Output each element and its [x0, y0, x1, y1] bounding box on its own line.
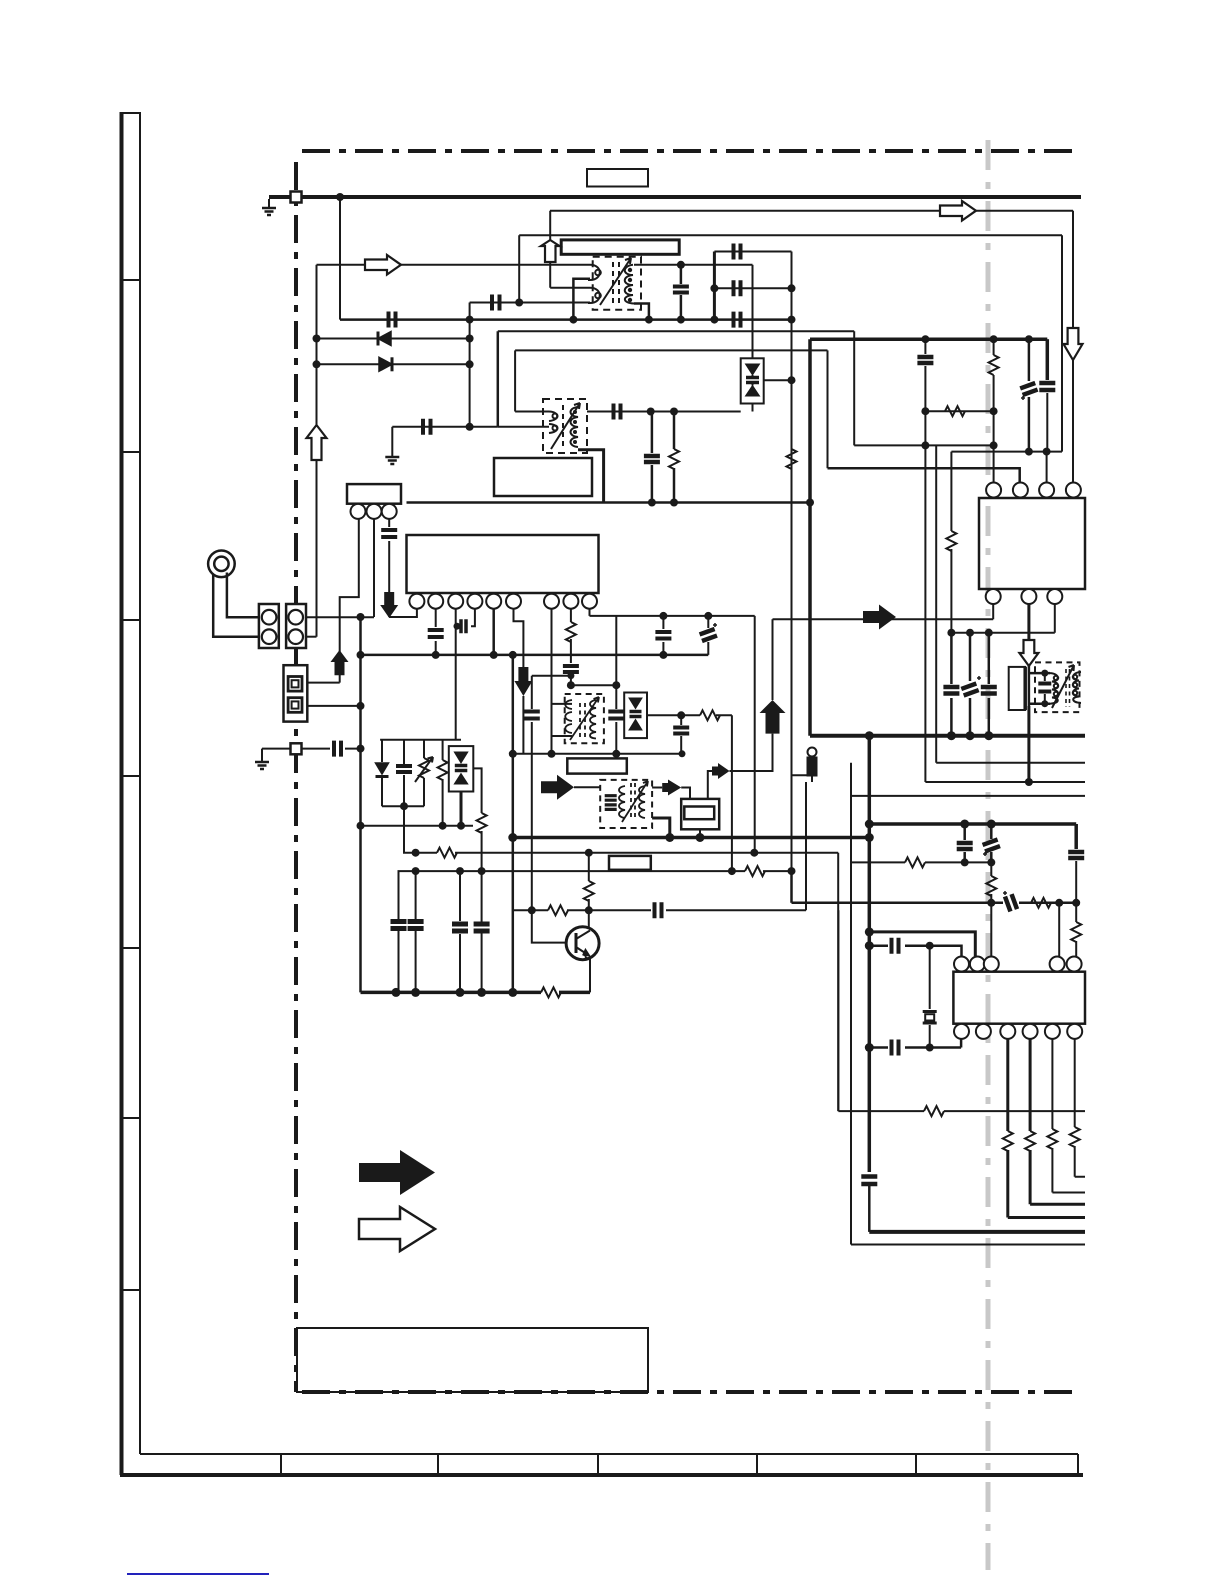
tuning cap bus x=714.4 [713, 252, 716, 320]
resistor wire y=411.2 [925, 410, 993, 412]
crystal right lead up [708, 771, 712, 799]
vertical x=1062 (y235 to y451) [1061, 235, 1063, 451]
trimmer pot x=424 [423, 740, 425, 807]
outline up arrow at x=550 [541, 240, 560, 262]
electrolytic x=970 [969, 633, 972, 736]
wire y=264.8 with FM arrow [317, 264, 591, 266]
antenna jack (double circle) [208, 551, 235, 578]
cap x=1047.3 thick corner [1046, 339, 1050, 380]
junction square on B+ rail [291, 192, 302, 203]
wire y=852.7 [416, 852, 839, 854]
diode D1 (points left) [378, 332, 391, 346]
wire to riser x=772.5 [730, 734, 773, 771]
long vertical x=854.2 [853, 331, 855, 445]
diode row1 wire y=338.5 [317, 338, 470, 340]
filled arrow into T4 [541, 775, 574, 800]
T3 left leads + pin7 riser [552, 704, 573, 736]
base wire [532, 910, 566, 942]
riser continues to IF wire [772, 619, 774, 700]
corner x=515.1 [514, 350, 516, 411]
T3 coils [565, 697, 599, 740]
wire y=1111.1 [838, 1110, 1085, 1112]
T5 coils [1050, 665, 1081, 708]
label box above T1 [561, 240, 679, 254]
wire y=862.4 with resistor [851, 861, 991, 863]
arrow out of T4 [652, 787, 662, 789]
resistor x=674 [673, 412, 676, 503]
IC2 top pins [954, 957, 1082, 972]
filled down arrow x=389.2 [380, 592, 398, 618]
cap on y=426.8 [423, 419, 431, 435]
wire y=468.2 to IC1 pin2 [828, 468, 1020, 482]
wire y=753.8 [513, 753, 682, 755]
vertical x=469.6 (AM input chain) [469, 303, 471, 427]
discriminator top wire y=739.7 [380, 739, 461, 741]
wire y=287.7 into T1 [550, 287, 590, 289]
x=616.3 riser from y=617 [615, 616, 617, 685]
page frame left border [120, 112, 1083, 1475]
capacitor on y=302.5 at x=496 [492, 295, 500, 311]
varactor right lead to x=791.5 [764, 379, 792, 381]
legend filled arrow [359, 1150, 435, 1195]
IC2 bottom pins [954, 1024, 1082, 1039]
pin1 lead down to wire y=617 [340, 519, 359, 683]
down-feed x=925.4 [921, 335, 929, 343]
pin1 lead left-down [410, 609, 417, 617]
cap wire y=748.6 to bus [302, 748, 361, 750]
varactor box D5 [624, 693, 647, 739]
outline up arrow on x=316.5 [307, 425, 327, 460]
varicap row3 cap on bus y=319.6 [734, 312, 741, 328]
outline FM arrow right on y=264.8 [365, 255, 401, 275]
small filled arrow right y=771 [712, 763, 730, 779]
cap x=404 [403, 740, 405, 807]
headphone jack component [808, 748, 817, 757]
J3 terminal 2 [288, 698, 302, 713]
pin2 lead + down arrow outline [1027, 604, 1030, 640]
ground bus y=992.4 [361, 991, 591, 995]
polarized cap on y=902.8 [1005, 894, 1017, 911]
dash-dot board outline [296, 151, 1081, 1392]
pin4/5 cap link [456, 609, 475, 627]
small IC box [347, 484, 401, 504]
IC U2 box [979, 498, 1085, 589]
thick wire y=931.9 to IC2 pin [869, 932, 975, 956]
wire y=902.8 [792, 902, 1077, 905]
thick stub y=836.7 from left [513, 836, 870, 840]
T2 secondary bottom lead thick [578, 450, 604, 503]
thick vertical x=869.3 [868, 736, 872, 1172]
diode row2 wire y=364.3 [317, 363, 470, 365]
label box under T2 [494, 458, 592, 496]
wire y=782 [925, 781, 1085, 783]
U2 bottom pins [986, 589, 1063, 604]
T2 tuning arrow [551, 403, 580, 449]
border square junction at x=296 [291, 743, 302, 754]
power bus y=502.5 [407, 501, 811, 504]
wire y=1047.5 [869, 1039, 961, 1048]
filled arrow right on y=617 [863, 605, 896, 630]
T2 dashed box [543, 399, 587, 453]
T4 coils [619, 781, 648, 822]
thick bus x=810 [808, 339, 812, 736]
vertical x=316.5 from FM wire down to connector J2 [316, 265, 318, 637]
T1 secondary top lead to caps [634, 264, 753, 266]
capacitor on AM bus at x=392 [389, 312, 396, 328]
resistor chain x=993.6 [990, 335, 998, 343]
wire bus y=654.9 [361, 654, 709, 657]
ceramic resonator box [1009, 667, 1025, 710]
resistor x=442.6 [442, 740, 444, 826]
wire y=825.7 [361, 825, 474, 827]
wire y=762.8 [936, 762, 1085, 764]
legend outline arrow [359, 1207, 435, 1251]
wire y=795.9 [851, 795, 1085, 797]
cap C x=460 [459, 871, 461, 992]
jog x=398.5 cap A [399, 871, 416, 992]
varactor diodes [746, 364, 760, 396]
wire y=945.7 to IC2 pin1 [869, 946, 961, 957]
J2 pin2 wire right to x=316.5 [306, 636, 317, 638]
T2 secondary top lead out [587, 411, 651, 413]
pin lead x=1059.2 [1058, 903, 1060, 957]
pin5 lead [492, 609, 495, 655]
IF input wire y=617 [590, 615, 755, 617]
wire corner x=1073 down to IC pin4 [1072, 211, 1074, 328]
pin9 corner into wire y=617 [589, 609, 591, 616]
vertical x=519.2 [518, 235, 520, 302]
crystal X1 box [681, 799, 719, 829]
varicap row1 wire y=251.5 [714, 251, 791, 253]
thick bus y=735.7 [810, 734, 1085, 738]
filled up arrow x=339.5 [331, 650, 349, 675]
electrolytic x=1028.9 [1025, 335, 1033, 343]
resistor on y=902.8 [1031, 898, 1051, 908]
T4 ground lead [652, 818, 670, 838]
varactor bottom lead [752, 404, 754, 412]
U2 top pins [986, 483, 1081, 498]
crystal x=929.7 [929, 946, 931, 1048]
pin3 lead [1046, 452, 1048, 482]
diode D2 (points right) [379, 357, 392, 371]
electrolytic x=991.3 [990, 824, 993, 862]
vertical x=550.2 with up arrow [549, 211, 551, 288]
cap on y=411.5 [614, 404, 621, 420]
T2 primary top lead [515, 411, 549, 413]
varactor box D4 [449, 746, 474, 791]
jog x=404 down to wire 852.7 [404, 806, 416, 853]
blue footer line [127, 1573, 269, 1575]
cap row2 [734, 280, 741, 296]
pin8 chain x=570.9 [570, 609, 572, 686]
outline arrow down at x=1073 [1064, 328, 1083, 360]
resistor x=790.4 top [787, 449, 797, 469]
collector [588, 910, 590, 927]
wire y=806.2 [382, 805, 424, 807]
T5 internal cap + dots [1041, 670, 1048, 677]
T2 coils [549, 405, 578, 447]
antenna leads [213, 573, 262, 637]
J3 terminal 1 [288, 677, 302, 692]
vertical x=531.8 from T3 area cap [532, 676, 571, 911]
pin3 lead down to discriminator [455, 609, 457, 740]
cap x=988.8 [988, 633, 991, 736]
emitter resistor [541, 987, 561, 997]
resistor x=1076.2 to pin [1075, 903, 1077, 957]
resistor x=991.3 lower [990, 862, 992, 956]
x=806 riser [805, 782, 807, 910]
wire y=632.7 [951, 604, 1054, 633]
IF wire into U2 [773, 604, 994, 619]
fold line (gray dash-dot) [986, 140, 991, 1570]
label box (vco) [609, 856, 651, 870]
cap wire y=426.8 [392, 426, 498, 428]
D5 right lead wire y=715.3 [647, 715, 732, 871]
wire y=210.7 [550, 210, 1073, 212]
transformer T5 dashed box [1035, 662, 1080, 712]
electrolytic cap x=708.3 [704, 612, 712, 620]
connector J2 [286, 604, 306, 648]
three caps row to bus: x=951.4 [950, 633, 953, 736]
x=616.3 cap chain down [615, 685, 617, 754]
corner x=827.5 down to wire 468 [827, 350, 829, 468]
collector resistor x=588.8 [588, 853, 590, 911]
diode x=382 [381, 740, 383, 807]
varactor right lead + resistor x=481.6 [473, 768, 481, 922]
T1 primary coils (left) [588, 265, 601, 303]
thick bus y=824 [869, 822, 1076, 826]
T1 secondary coil (right) [625, 265, 634, 304]
transformer T3 dashed box [565, 694, 604, 743]
T2 primary bottom lead [498, 426, 549, 428]
T1 secondary bottom lead to bus [634, 304, 649, 320]
T1 tuning arrow diagonal [600, 258, 631, 305]
wire y=331 [498, 330, 854, 332]
ground stub wire y=748.6 [262, 749, 290, 762]
T1 core dashes [613, 262, 619, 305]
wire y=451.6 [951, 451, 1062, 453]
wire to crystal [681, 788, 690, 799]
filled down arrow x=523.4 [514, 667, 532, 696]
pin3 lead down with cap and black arrow [389, 519, 410, 617]
crystal bottom lead to bus [699, 829, 701, 837]
node dot rail/x340 [336, 193, 344, 201]
J2 pin2 to J3 link on border [294, 648, 297, 665]
AM bus y=319.6 [340, 318, 792, 321]
T1 upper-loop bottom jog to bus [573, 279, 590, 320]
wire y=685.2 [571, 684, 616, 686]
transformer T4 dashed box [600, 780, 652, 828]
T4 internal caps [605, 796, 617, 810]
long vertical x=850.7 [850, 763, 852, 1245]
varicap row2 wire y=288.3 [714, 287, 791, 289]
vertical x=340 from rail to AM bus [339, 197, 341, 320]
pin6 jog to filled down arrow x=523.4 [514, 609, 524, 754]
cap x=663.4 on y=617 [662, 616, 664, 655]
cap right x=1076.2 [1074, 824, 1078, 849]
small IC pins [351, 504, 397, 519]
transformer T1 dashed box [593, 257, 641, 310]
corner x=497.8 down [497, 331, 500, 427]
signal arrow right (outline) on y=210.7 [940, 201, 976, 221]
resistor on y=871.1 [745, 866, 765, 876]
cap B x=415.6 [415, 871, 417, 992]
ground at top-left [262, 199, 276, 215]
J2 pin1 wire right [306, 616, 374, 618]
thick corner to y=1231.9 [869, 1230, 1085, 1234]
cap on y=910.3 [655, 902, 662, 918]
J3 t2 wire to bus [307, 705, 360, 707]
IC1 bottom pins [409, 594, 597, 609]
cap x=964.7 [963, 824, 966, 862]
corner x=838.2 down [837, 853, 839, 1111]
wire y=910.3 [513, 909, 806, 911]
vertical x=752.5 from row1 to varactor box [752, 265, 754, 359]
label box (detector) [567, 758, 627, 773]
vertical x=951.4 with resistor [950, 452, 952, 633]
ground under cap wire [385, 457, 399, 464]
top label box [587, 169, 648, 187]
padder capacitor x=680.9 [673, 287, 689, 293]
cap D x=481.6 [474, 924, 490, 931]
vertical x=936.2 [935, 445, 937, 762]
B+ top rail [269, 195, 1081, 199]
wire y=235.3 [519, 234, 1062, 236]
vertical x=838.4 / wire y=910.3 right end [837, 910, 839, 1111]
connector J1 [259, 604, 279, 648]
wire into T4 [574, 786, 600, 788]
cap x=681.2 [680, 715, 682, 754]
title block box bottom-left [297, 1328, 648, 1392]
IC2 output resistors [1003, 1039, 1085, 1218]
stub x=392.3 down to ground [391, 427, 393, 457]
pin2 lead down [373, 519, 375, 617]
emitter [588, 958, 590, 993]
connector J3 [284, 665, 308, 721]
AM bar-antenna wire y=302.5 [470, 302, 590, 304]
cap x=651.9 bus to rail [651, 412, 654, 503]
wire y=871.1 [416, 870, 792, 872]
vertical x=512.8 [512, 655, 515, 993]
J3 t1 wire to arrow riser [307, 682, 339, 684]
ground [255, 762, 269, 769]
cap row1 [734, 244, 741, 260]
wire y=350 [515, 349, 827, 351]
wire arrow to pin4 [1072, 360, 1074, 482]
vertical bus x=360.5 [359, 617, 362, 992]
IC2 box [953, 972, 1085, 1024]
long vertical x=791.5 [791, 252, 793, 872]
varactor pair box D3 [741, 358, 764, 403]
thick bus y=339 to caps [810, 337, 1047, 341]
series cap on x=869.3 [861, 1177, 877, 1185]
corner x=754.7 down to wire 852.7 [754, 616, 756, 853]
pin2 cap to bus 654.9 [435, 609, 437, 655]
big filled up arrow x=772.5 [760, 700, 786, 734]
wire y=445.4 [854, 444, 993, 446]
